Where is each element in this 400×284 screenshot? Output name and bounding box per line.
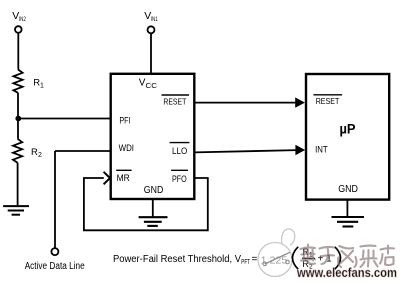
svg-text:CC: CC	[146, 81, 158, 90]
svg-text:RESET: RESET	[316, 96, 340, 106]
svg-text:R: R	[31, 147, 38, 158]
svg-text:WDI: WDI	[119, 143, 134, 153]
svg-text:IN1: IN1	[151, 17, 158, 23]
svg-text:www.elecfans.com: www.elecfans.com	[296, 266, 397, 280]
svg-text:RESET: RESET	[163, 97, 186, 107]
svg-text:GND: GND	[144, 185, 164, 196]
svg-text:GND: GND	[338, 184, 358, 195]
svg-text:2: 2	[38, 152, 42, 159]
svg-text:=: =	[252, 254, 258, 265]
svg-text:Power-Fail Reset Threshold, V: Power-Fail Reset Threshold, V	[113, 254, 241, 265]
svg-text:LLO: LLO	[172, 146, 187, 157]
svg-text:IN2: IN2	[19, 17, 26, 23]
svg-text:PFO: PFO	[172, 174, 187, 185]
svg-text:MR: MR	[117, 173, 130, 184]
svg-text:PFT: PFT	[241, 259, 250, 266]
svg-text:µP: µP	[340, 122, 356, 137]
svg-text:INT: INT	[315, 145, 328, 156]
svg-text:Active Data Line: Active Data Line	[25, 261, 85, 272]
svg-text:PFI: PFI	[119, 116, 130, 126]
svg-text:1: 1	[40, 83, 44, 90]
